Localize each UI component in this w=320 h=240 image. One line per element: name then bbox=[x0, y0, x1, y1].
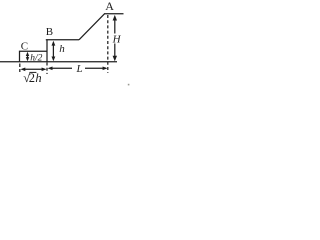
svg-text:√2h: √2h bbox=[23, 71, 41, 85]
svg-text:H: H bbox=[112, 33, 122, 45]
svg-text:A: A bbox=[105, 0, 114, 13]
svg-text:C: C bbox=[21, 41, 28, 53]
svg-text:B: B bbox=[46, 26, 53, 38]
svg-text:h: h bbox=[59, 43, 65, 55]
svg-text:h/2: h/2 bbox=[30, 53, 42, 63]
svg-text:L: L bbox=[76, 63, 83, 75]
